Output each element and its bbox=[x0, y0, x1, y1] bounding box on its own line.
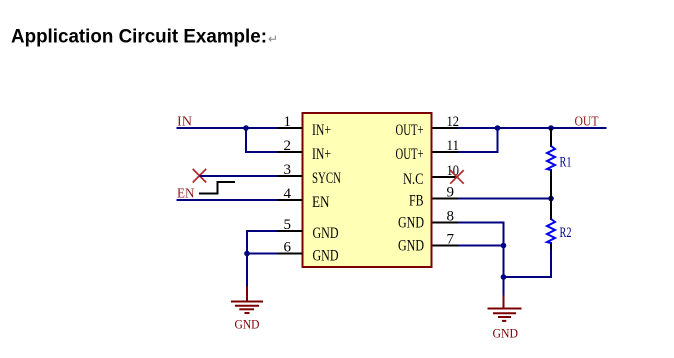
svg-text:R1: R1 bbox=[560, 155, 572, 171]
wire IN branch down to pin2 bbox=[246, 128, 277, 152]
svg-text:4: 4 bbox=[284, 186, 292, 202]
junction R1 top / OUT rail bbox=[548, 125, 554, 131]
svg-text:OUT+: OUT+ bbox=[396, 146, 424, 163]
junction pin6/rail bbox=[244, 251, 250, 257]
svg-text:2: 2 bbox=[284, 138, 292, 154]
wire pin 9 (FB) to divider bbox=[458, 198, 551, 200]
wire pin 5 to ground rail bbox=[247, 231, 277, 287]
pin 11 (OUT+) bbox=[396, 138, 460, 163]
pin 12 (OUT+) bbox=[396, 114, 460, 139]
svg-text:Application Circuit Example:: Application Circuit Example: bbox=[11, 26, 267, 48]
svg-text:OUT+: OUT+ bbox=[396, 122, 424, 139]
junction pin11/OUT rail bbox=[495, 125, 501, 131]
svg-text:EN: EN bbox=[312, 194, 330, 211]
svg-text:GND: GND bbox=[235, 317, 260, 332]
svg-text:9: 9 bbox=[447, 185, 455, 201]
net label EN bbox=[177, 187, 195, 202]
pin 4 (EN) bbox=[277, 186, 330, 211]
pin 6 (GND) bbox=[277, 240, 339, 265]
wire pin 7 to ground rail bbox=[458, 245, 504, 247]
svg-text:11: 11 bbox=[447, 138, 460, 154]
pin 8 (GND) bbox=[398, 209, 459, 232]
no-ERC marker X on pin 10 bbox=[450, 170, 464, 184]
wire pin 8 down ground rail bbox=[458, 223, 504, 297]
pin 10 (N.C) bbox=[403, 163, 459, 188]
pin 5 (GND) bbox=[277, 217, 339, 242]
resistor R2 bbox=[547, 199, 572, 255]
pin 2 (IN+) bbox=[277, 138, 332, 163]
wire pin 12 to OUT bbox=[458, 127, 607, 129]
wire to pin 3 (SYCN) bbox=[200, 175, 278, 177]
svg-text:5: 5 bbox=[284, 217, 292, 233]
resistor R1 bbox=[547, 128, 572, 199]
wire IN to pin1 bbox=[177, 127, 278, 129]
ground (left) bbox=[231, 286, 263, 332]
svg-text:IN+: IN+ bbox=[312, 122, 331, 139]
svg-text:OUT: OUT bbox=[575, 115, 599, 130]
wire pin 6 to ground rail bbox=[247, 253, 277, 255]
pin 1 (IN+) bbox=[277, 114, 332, 139]
junction R2 return / ground rail bbox=[501, 274, 507, 280]
rising-edge symbol on EN bbox=[199, 182, 235, 194]
pin 7 (GND) bbox=[398, 232, 459, 255]
svg-text:GND: GND bbox=[313, 248, 339, 265]
svg-text:N.C: N.C bbox=[403, 171, 424, 188]
svg-text:1: 1 bbox=[284, 114, 292, 130]
pin 9 (FB) bbox=[409, 185, 459, 210]
svg-text:12: 12 bbox=[447, 114, 460, 130]
svg-text:GND: GND bbox=[313, 225, 339, 242]
junction pin7/ground rail bbox=[501, 243, 507, 249]
IC U1 body bbox=[303, 113, 432, 267]
svg-text:IN+: IN+ bbox=[312, 146, 331, 163]
wire R2 bottom to ground rail bbox=[504, 250, 552, 277]
svg-text:FB: FB bbox=[409, 193, 424, 210]
pin 3 (SYCN) bbox=[277, 162, 342, 187]
junction FB/divider bbox=[548, 196, 554, 202]
svg-text:GND: GND bbox=[398, 238, 424, 255]
svg-text:GND: GND bbox=[493, 326, 519, 341]
svg-text:6: 6 bbox=[284, 240, 292, 256]
svg-text:GND: GND bbox=[398, 215, 424, 232]
wire EN to pin 4 bbox=[177, 199, 278, 201]
svg-text:↵: ↵ bbox=[268, 32, 278, 46]
svg-text:3: 3 bbox=[284, 162, 292, 178]
net label IN bbox=[177, 115, 192, 130]
svg-text:SYCN: SYCN bbox=[312, 170, 341, 187]
ground (right) bbox=[488, 296, 522, 341]
junction at IN branch bbox=[243, 125, 249, 131]
net label OUT bbox=[575, 115, 599, 130]
svg-text:8: 8 bbox=[447, 209, 455, 225]
wire pin 11 up to OUT rail bbox=[458, 128, 498, 152]
no-ERC marker X on pin 3 wire bbox=[193, 169, 207, 183]
svg-text:7: 7 bbox=[447, 232, 455, 248]
title bbox=[11, 26, 278, 48]
svg-text:R2: R2 bbox=[560, 225, 572, 241]
